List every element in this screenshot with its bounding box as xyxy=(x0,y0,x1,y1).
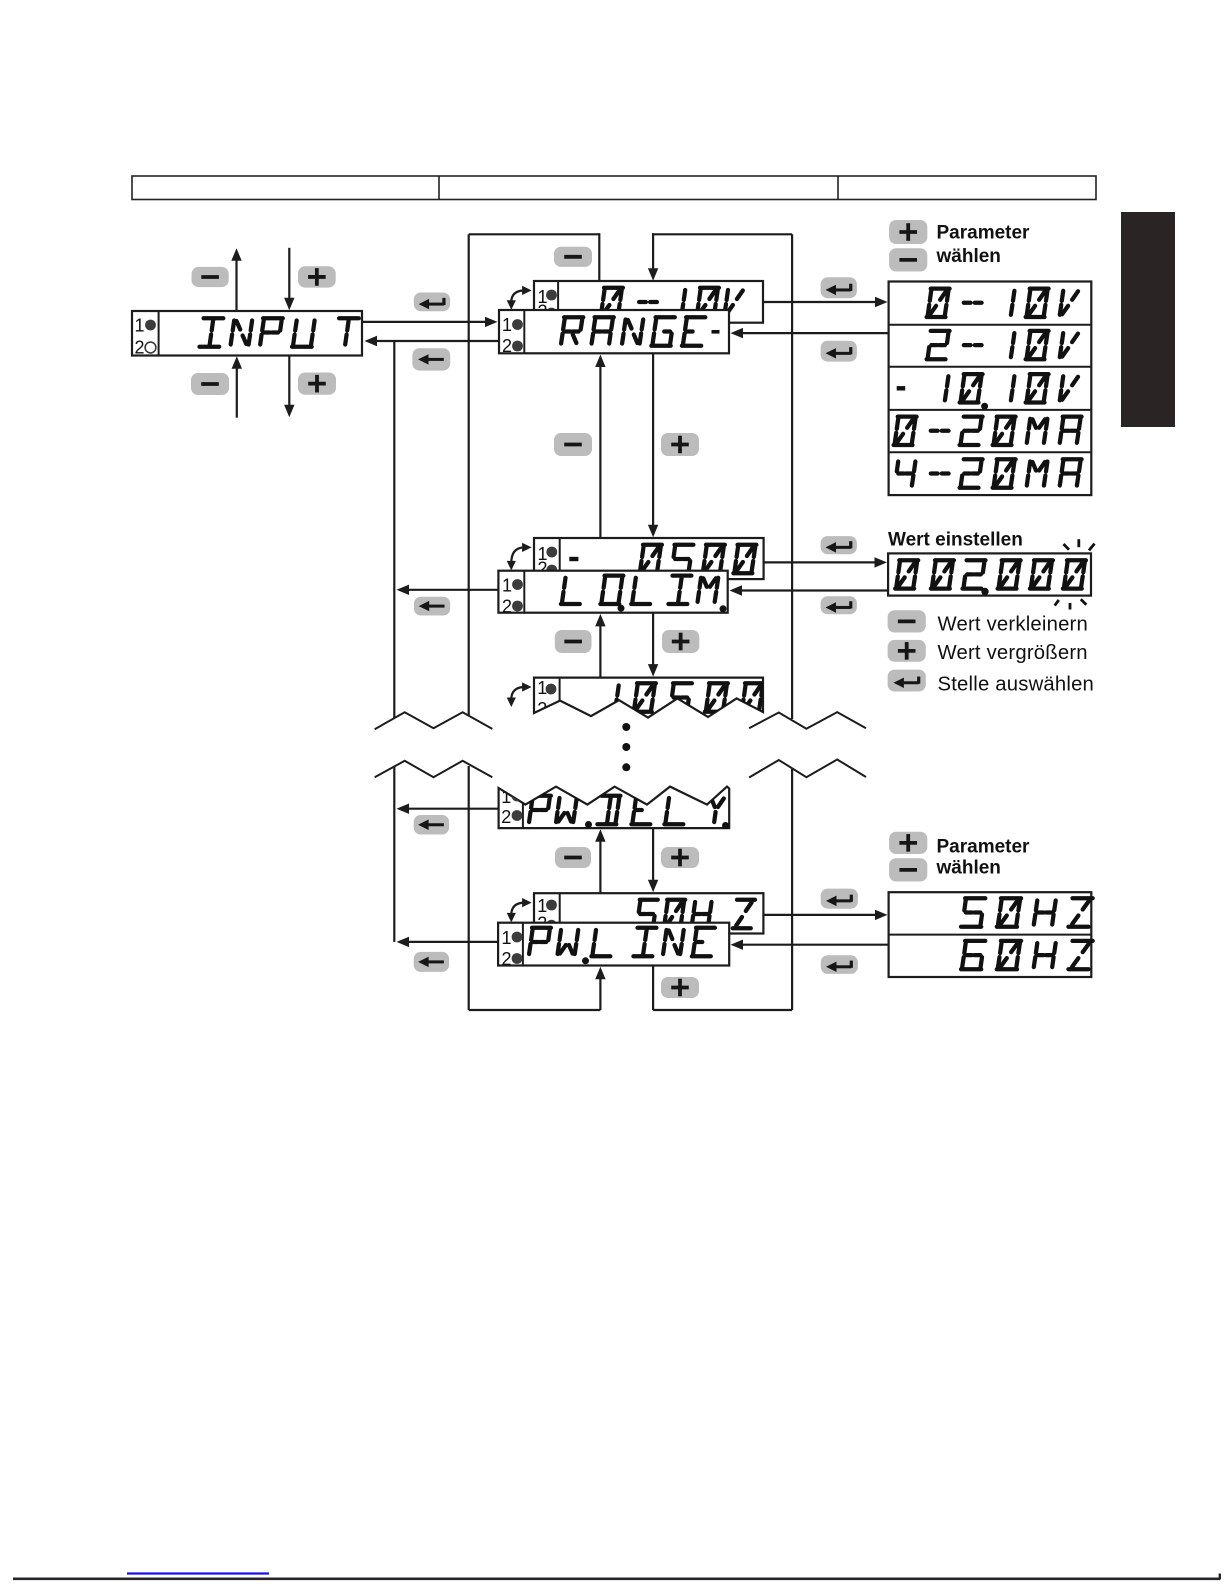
button minus (INPUT bottom-left) xyxy=(191,373,229,395)
blink rays around last digit xyxy=(1055,539,1095,609)
svg-text:1: 1 xyxy=(135,316,145,336)
display 0..10V (secondary of RANGE) xyxy=(534,281,763,323)
legend bottom: minus button xyxy=(889,858,927,881)
wire: right loop bottom edge xyxy=(653,1009,792,1011)
svg-text:2: 2 xyxy=(502,336,512,356)
button minus (INPUT top-left) xyxy=(192,267,229,287)
display PW.LINE xyxy=(498,923,729,969)
break zigzag left upper xyxy=(375,712,493,729)
wire: 50HZ to list forward arrow xyxy=(763,910,887,920)
svg-text:1: 1 xyxy=(502,315,512,335)
legend plus button (Wert vergroessern) xyxy=(888,640,926,662)
svg-text:Parameter: Parameter xyxy=(937,836,1031,857)
wire: ESC rail lower xyxy=(393,767,395,942)
legend bottom: plus button xyxy=(889,832,927,854)
legend text Wert vergroessern xyxy=(938,642,1088,664)
button minus (RANGE down-left) xyxy=(554,433,592,456)
legend bottom text Parameter waehlen xyxy=(936,836,1031,878)
wire: 0-10V to list forward arrow xyxy=(763,297,888,307)
svg-text:2: 2 xyxy=(502,949,512,969)
button plus (LO.LIM down-right) xyxy=(662,630,699,653)
svg-text:Parameter: Parameter xyxy=(937,223,1031,244)
curved swap arrow at 10500 xyxy=(507,682,532,707)
button plus (PW.LINE bottom) xyxy=(661,977,699,998)
chapter tab (black) xyxy=(1121,212,1175,427)
wire: left loop top edge xyxy=(469,233,600,235)
break zigzag left lower xyxy=(375,761,493,777)
wire: INPUT top up-arrow xyxy=(231,248,241,311)
wire: 0500 to value forward arrow xyxy=(764,557,887,567)
ellipsis dots xyxy=(622,723,630,771)
button plus (RANGE down-right) xyxy=(661,433,699,456)
svg-text:1: 1 xyxy=(502,576,512,596)
svg-text:wählen: wählen xyxy=(936,246,1001,267)
button back (LO.LIM return) xyxy=(414,597,450,616)
wire: right loop top edge xyxy=(653,233,793,235)
button minus (LO.LIM down-left) xyxy=(555,630,592,653)
button minus (left loop top) xyxy=(554,247,592,267)
wire: list to PW.LINE return arrow xyxy=(731,940,889,950)
display INPUT xyxy=(132,311,362,358)
display 10500 (zigzag cut) xyxy=(534,678,764,719)
svg-text:2: 2 xyxy=(501,807,511,827)
parameter list box (0-10V .. 4-20MA) xyxy=(889,282,1092,496)
svg-text:2: 2 xyxy=(502,597,512,617)
svg-text:Wert verkleinern: Wert verkleinern xyxy=(938,614,1088,636)
wire: minus rail up-arrow into RANGE xyxy=(595,355,605,538)
break zigzag right lower xyxy=(749,760,866,778)
wire: right loop right edge lower xyxy=(791,769,793,1010)
svg-text:2: 2 xyxy=(135,338,145,358)
wire: left loop left edge upper xyxy=(468,234,470,716)
wire: INPUT top down-arrow xyxy=(284,248,294,310)
svg-text:Stelle auswählen: Stelle auswählen xyxy=(938,673,1095,695)
display -0500 (secondary of LO.LIM) xyxy=(534,538,764,579)
wire: left loop left edge lower xyxy=(468,766,470,1010)
list box 50HZ/60HZ xyxy=(889,892,1092,977)
wire: minus rail up-arrow into PW.DELY xyxy=(595,829,605,893)
wire: plus rail down-arrow into 50HZ xyxy=(648,828,658,892)
wire: PW.DELY return arrow xyxy=(397,804,499,814)
wire: plus rail down-arrow into 10500 xyxy=(648,613,658,677)
wire: RANGE to INPUT return arrow xyxy=(365,336,499,346)
list row2 2..10V xyxy=(927,331,1078,359)
wire: plus rail down-arrow into 0-10V xyxy=(648,233,658,281)
button plus (INPUT bottom-right) xyxy=(298,373,336,395)
button minus (PW.DELY down-left) xyxy=(555,847,591,868)
wire: minus rail up-arrow into PW.LINE xyxy=(595,967,605,1010)
button back (PW.LINE return) xyxy=(414,952,449,972)
list row3 -10.10V xyxy=(897,374,1078,410)
wire: right loop right edge upper xyxy=(791,234,793,719)
list row4 0..20MA xyxy=(894,417,1082,445)
list row1 0..10V xyxy=(927,289,1078,317)
button back (PW.DELY return) xyxy=(414,815,449,835)
wire: left loop bottom edge xyxy=(469,1009,601,1011)
svg-text:Wert einstellen: Wert einstellen xyxy=(888,529,1023,550)
wire: INPUT bottom up-arrow xyxy=(232,356,242,418)
footnote rule (blue) xyxy=(127,1572,269,1574)
svg-text:Wert vergrößern: Wert vergrößern xyxy=(938,642,1088,664)
button enter (RANGE list select) xyxy=(821,277,857,298)
legend top text Parameter waehlen xyxy=(936,223,1031,268)
legend minus button (Wert verkleinern) xyxy=(888,610,926,632)
wire: LO.LIM return arrow xyxy=(397,585,499,595)
wire: ESC rail upper xyxy=(393,341,395,718)
svg-text:wählen: wählen xyxy=(936,857,1001,878)
list row 60HZ xyxy=(961,941,1093,969)
wire: minus rail up-arrow into LO.LIM xyxy=(595,614,605,677)
curved swap arrow at LO.LIM xyxy=(507,543,532,571)
legend top: minus button xyxy=(889,248,927,271)
legend text Stelle auswaehlen xyxy=(938,673,1095,695)
list row 50HZ xyxy=(961,898,1093,926)
curved swap arrow at PW.LINE xyxy=(507,898,532,922)
wire: PW.LINE return arrow xyxy=(397,937,499,947)
button enter (PW.LINE list select) xyxy=(821,889,858,909)
svg-text:1: 1 xyxy=(502,928,512,948)
button enter (RANGE list confirm) xyxy=(821,341,857,362)
button plus (PW.DELY down-right) xyxy=(661,847,699,868)
wire: plus rail bottom seg xyxy=(652,966,654,1011)
button enter (PW.LINE list confirm) xyxy=(821,955,858,974)
display RANGE xyxy=(499,310,729,356)
wire: value to LO.LIM return arrow xyxy=(730,585,889,595)
display LO.LIM xyxy=(498,571,727,617)
button back (RANGE-INPUT return) xyxy=(412,348,450,370)
list row5 4..20MA xyxy=(897,459,1082,487)
table header row xyxy=(132,176,1096,200)
page bottom rule xyxy=(13,1574,1220,1580)
legend enter button (Stelle auswaehlen) xyxy=(888,670,926,692)
legend top: plus button xyxy=(889,220,927,244)
wire: INPUT bottom down-arrow xyxy=(284,356,294,418)
button enter (value select) xyxy=(821,536,857,554)
wire: INPUT to RANGE forward arrow xyxy=(362,317,498,327)
wire: minus rail seg1 xyxy=(598,233,600,282)
value display 002.000 xyxy=(888,553,1091,595)
display 50HZ (secondary of PW.LINE) xyxy=(534,893,763,934)
button plus (INPUT top-right) xyxy=(298,266,336,287)
wire: list to RANGE return arrow xyxy=(731,328,889,338)
legend text Wert verkleinern xyxy=(938,614,1088,636)
legend Wert einstellen xyxy=(888,529,1023,550)
break zigzag right upper xyxy=(749,712,866,729)
button enter (value confirm) xyxy=(821,596,857,614)
button enter (INPUT-RANGE forward) xyxy=(414,293,450,312)
display PW.DELY (zigzag cut) xyxy=(499,787,730,829)
curved swap arrow at RANGE xyxy=(507,286,532,310)
wire: plus rail down-arrow into 0500 xyxy=(648,353,658,537)
